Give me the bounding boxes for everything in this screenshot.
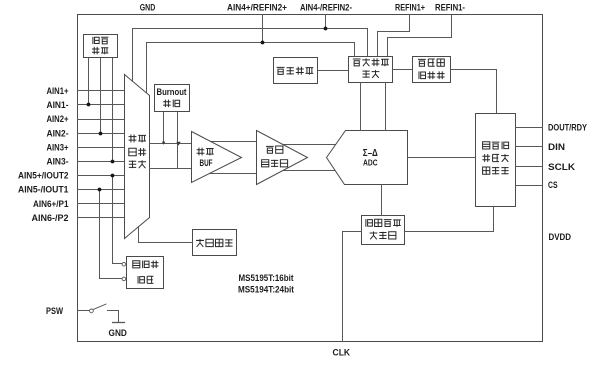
svg-text:AIN3-: AIN3- <box>47 157 69 167</box>
svg-text:DOUT/RDY: DOUT/RDY <box>548 123 587 133</box>
svg-text:MS5194T:24bit: MS5194T:24bit <box>238 284 294 294</box>
svg-text:PSW: PSW <box>46 306 63 316</box>
svg-text:AIN1-: AIN1- <box>47 100 69 110</box>
svg-text:AIN5+/IOUT2: AIN5+/IOUT2 <box>18 171 69 181</box>
svg-text:MS5195T:16bit: MS5195T:16bit <box>239 273 294 283</box>
svg-text:DVDD: DVDD <box>549 232 572 242</box>
svg-text:SCLK: SCLK <box>548 162 575 172</box>
svg-text:AIN2+: AIN2+ <box>47 114 69 124</box>
svg-text:REFIN1+: REFIN1+ <box>395 2 425 12</box>
svg-text:CLK: CLK <box>333 348 351 358</box>
svg-text:Burnout: Burnout <box>157 87 187 97</box>
svg-text:CS: CS <box>548 180 558 190</box>
svg-text:AIN2-: AIN2- <box>47 128 69 138</box>
svg-text:AIN5-/IOUT1: AIN5-/IOUT1 <box>18 185 69 195</box>
svg-text:REFIN1-: REFIN1- <box>435 2 465 12</box>
svg-text:GND: GND <box>140 2 156 12</box>
svg-text:GND: GND <box>109 328 128 338</box>
svg-text:AIN4-/REFIN2-: AIN4-/REFIN2- <box>300 2 352 12</box>
svg-text:AIN4+/REFIN2+: AIN4+/REFIN2+ <box>227 2 287 12</box>
svg-text:AIN3+: AIN3+ <box>47 142 69 152</box>
svg-text:AIN6+/P1: AIN6+/P1 <box>33 199 69 209</box>
svg-text:BUF: BUF <box>200 158 213 168</box>
svg-text:AIN6-/P2: AIN6-/P2 <box>32 213 69 223</box>
svg-text:Σ–Δ: Σ–Δ <box>363 148 378 159</box>
svg-text:AIN1+: AIN1+ <box>47 86 69 96</box>
svg-text:ADC: ADC <box>363 158 378 167</box>
svg-text:DIN: DIN <box>548 142 565 152</box>
